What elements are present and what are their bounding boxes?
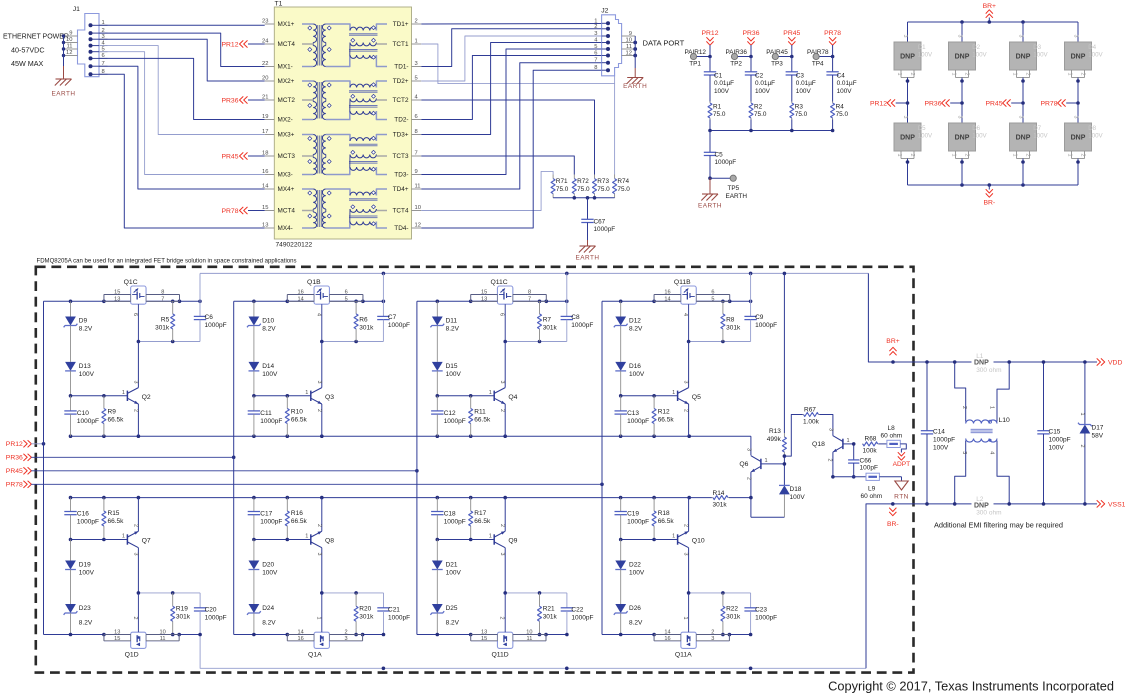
node base row lower cell 4 <box>619 538 656 542</box>
off-page connector PR36 into bridge <box>924 99 963 107</box>
node BR+ rail in bridge box <box>200 272 868 276</box>
resistor R6 301k <box>354 301 374 341</box>
svg-text:100V: 100V <box>446 570 462 577</box>
svg-text:12: 12 <box>415 223 421 229</box>
node gate row lower cell 3 <box>503 591 567 595</box>
svg-text:D8: D8 <box>1088 125 1096 132</box>
svg-text:C14: C14 <box>933 429 945 436</box>
svg-text:1000pF: 1000pF <box>627 418 649 425</box>
wire J1 pin8 to T1 MX4- <box>99 74 265 228</box>
svg-text:D10: D10 <box>262 318 274 325</box>
node pair rail lower cell 2 <box>234 633 386 637</box>
off-page connector BR+ right <box>886 338 899 355</box>
svg-text:R14: R14 <box>713 490 725 497</box>
wire J1 pin4 to T1 MX3+ <box>99 46 265 135</box>
svg-text:75.0: 75.0 <box>754 111 767 118</box>
svg-text:2: 2 <box>909 73 915 76</box>
wire TD2- to J2 pin6 <box>421 56 601 120</box>
resistor R21 301k <box>538 593 558 635</box>
svg-text:R19: R19 <box>176 606 188 613</box>
svg-text:2: 2 <box>1025 73 1031 76</box>
svg-text:60 ohm: 60 ohm <box>861 493 883 500</box>
svg-text:1: 1 <box>672 390 675 396</box>
svg-text:C20: C20 <box>205 607 217 614</box>
J1 left pins 9-12 to earth <box>62 30 78 79</box>
svg-text:4: 4 <box>989 451 995 454</box>
diode D20 100V <box>249 540 279 605</box>
zener diode D23 8.2V <box>64 604 93 635</box>
svg-text:1000pF: 1000pF <box>627 519 649 526</box>
resistor R2 75.0 <box>749 102 767 131</box>
svg-text:66.5k: 66.5k <box>291 417 308 424</box>
svg-text:8.2V: 8.2V <box>629 326 643 333</box>
svg-text:2: 2 <box>964 73 970 76</box>
ground EARTH under J1 <box>51 79 75 98</box>
svg-text:1000pF: 1000pF <box>444 519 466 526</box>
diode D18 100V <box>779 485 805 517</box>
svg-text:2: 2 <box>316 524 322 527</box>
svg-text:PR78: PR78 <box>1040 101 1057 108</box>
node gate row lower cell 1 <box>137 591 201 595</box>
svg-text:1.00k: 1.00k <box>803 419 820 426</box>
svg-text:75.0: 75.0 <box>617 186 630 193</box>
svg-text:Q7: Q7 <box>142 538 151 545</box>
svg-text:7490220122: 7490220122 <box>276 242 313 249</box>
capacitor C7 1000pF <box>377 273 410 341</box>
svg-text:Q1A: Q1A <box>308 652 322 659</box>
svg-text:10: 10 <box>526 629 532 635</box>
svg-text:16: 16 <box>664 636 670 642</box>
diode D14 100V <box>249 362 279 396</box>
svg-text:Additional EMI filtering may b: Additional EMI filtering may be required <box>934 521 1063 530</box>
resistor R7 301k <box>538 301 558 341</box>
svg-text:100V: 100V <box>933 445 949 452</box>
resistor R68 100k <box>862 436 887 455</box>
svg-text:RTN: RTN <box>894 494 909 501</box>
svg-text:R67: R67 <box>804 407 816 414</box>
transformer T1 body <box>274 1 411 249</box>
svg-text:11: 11 <box>527 636 533 642</box>
svg-text:75.0: 75.0 <box>713 111 726 118</box>
resistor R73 75.0 <box>593 175 611 198</box>
svg-text:66.5k: 66.5k <box>658 518 675 525</box>
svg-text:R16: R16 <box>291 510 303 517</box>
resistor R4 75.0 <box>831 102 849 131</box>
svg-text:1: 1 <box>682 617 688 620</box>
transformer T1 winding unit 2 <box>302 81 387 120</box>
svg-text:100V: 100V <box>918 52 933 59</box>
svg-text:DNP: DNP <box>1071 54 1086 61</box>
svg-text:1: 1 <box>305 534 308 540</box>
transformer T1 winding unit 3 <box>302 135 387 175</box>
transistor Q11D dual MOSFET <box>471 593 546 659</box>
svg-text:1000pF: 1000pF <box>260 418 282 425</box>
svg-text:MX2+: MX2+ <box>278 78 295 85</box>
transistor Q6 PNP <box>739 436 784 517</box>
svg-text:1000pF: 1000pF <box>205 615 227 622</box>
svg-text:D4: D4 <box>1088 44 1096 51</box>
svg-text:301k: 301k <box>176 614 191 621</box>
capacitor C17 1000pF <box>248 498 283 540</box>
diode D5 DNP 100V <box>894 103 933 185</box>
wire J1 pin3 to T1 MX2+ <box>99 39 265 81</box>
diode D16 100V <box>615 362 645 396</box>
svg-text:100V: 100V <box>1033 133 1048 140</box>
svg-text:R9: R9 <box>108 409 117 416</box>
svg-text:TD2-: TD2- <box>394 117 408 124</box>
transistor Q1D dual MOSFET <box>104 593 179 659</box>
svg-text:D22: D22 <box>629 562 641 569</box>
svg-text:TD3-: TD3- <box>394 172 408 179</box>
svg-text:13: 13 <box>114 629 120 635</box>
svg-text:6: 6 <box>711 289 714 295</box>
svg-text:4: 4 <box>315 313 321 316</box>
svg-text:TCT3: TCT3 <box>393 153 409 160</box>
svg-text:1: 1 <box>765 458 768 464</box>
off-page connector VSS1 <box>1097 500 1125 508</box>
svg-text:8.2V: 8.2V <box>446 620 460 627</box>
svg-text:2: 2 <box>594 24 597 30</box>
svg-text:D11: D11 <box>446 318 458 325</box>
node common rail above lower FET cells <box>69 496 691 500</box>
svg-text:1000pF: 1000pF <box>1049 437 1071 444</box>
capacitor C19 1000pF <box>615 498 650 540</box>
svg-text:2: 2 <box>499 409 505 412</box>
svg-text:5: 5 <box>711 296 714 302</box>
svg-text:6: 6 <box>415 114 418 120</box>
svg-text:12: 12 <box>626 50 632 56</box>
svg-text:Q11D: Q11D <box>491 652 508 659</box>
svg-text:5: 5 <box>345 296 348 302</box>
svg-text:1000pF: 1000pF <box>260 519 282 526</box>
svg-text:R11: R11 <box>474 409 486 416</box>
svg-text:66.5k: 66.5k <box>108 518 125 525</box>
svg-text:3: 3 <box>746 448 752 451</box>
wire TD3- to J2 pin5 <box>421 49 601 175</box>
svg-text:22: 22 <box>262 61 268 67</box>
capacitor C5 1000pF <box>704 131 736 179</box>
svg-text:C18: C18 <box>444 511 456 518</box>
off-page connector PR45 into bridge <box>985 99 1024 107</box>
svg-text:TCT4: TCT4 <box>393 208 409 215</box>
svg-text:Q2: Q2 <box>142 394 151 401</box>
node base row upper cell 1 <box>69 394 106 398</box>
capacitor C4 0.01uF 100V <box>826 57 856 102</box>
svg-text:D9: D9 <box>79 318 88 325</box>
off-page connector PR12 above TP1 <box>701 30 718 57</box>
svg-text:16: 16 <box>262 169 268 175</box>
resistor R8 301k <box>721 301 741 341</box>
svg-text:R15: R15 <box>108 510 120 517</box>
wire BR- bottom line <box>200 502 1097 670</box>
svg-text:100V: 100V <box>629 371 645 378</box>
diode D1 DNP 100V <box>894 22 933 103</box>
svg-text:Q9: Q9 <box>508 538 517 545</box>
wire J1 pin2 to T1 MX1- <box>99 33 265 66</box>
capacitor C23 1000pF <box>744 593 777 635</box>
svg-text:R7: R7 <box>543 317 552 324</box>
svg-text:15: 15 <box>114 289 120 295</box>
svg-text:1000pF: 1000pF <box>571 322 593 329</box>
capacitor C11 1000pF <box>248 396 283 436</box>
resistor R5 301k <box>155 301 175 341</box>
svg-text:301k: 301k <box>155 325 170 332</box>
capacitor C3 0.01uF 100V <box>786 57 816 102</box>
transistor Q10 NPN <box>654 498 705 593</box>
node gate row upper cell 1 <box>137 340 200 344</box>
test point TP1 PAIR12 <box>684 49 711 68</box>
wire BR+ to right edge <box>868 273 1097 363</box>
svg-text:1: 1 <box>847 438 850 444</box>
svg-text:C10: C10 <box>77 410 89 417</box>
resistor R72 75.0 <box>572 175 590 198</box>
svg-text:D25: D25 <box>446 605 458 612</box>
transistor Q1B dual MOSFET <box>287 279 363 342</box>
svg-text:D23: D23 <box>79 605 91 612</box>
svg-text:16: 16 <box>298 636 304 642</box>
svg-text:2: 2 <box>1025 154 1031 157</box>
svg-text:8.2V: 8.2V <box>262 326 276 333</box>
svg-text:10: 10 <box>160 629 166 635</box>
svg-text:D1: D1 <box>918 44 926 51</box>
resistor R16 66.5k <box>285 498 307 540</box>
svg-text:PR36: PR36 <box>742 30 759 37</box>
wire TP common node to C5 <box>708 129 834 133</box>
off-page connector PR45 bus into bridge box <box>6 467 419 475</box>
svg-text:PR12: PR12 <box>221 41 238 48</box>
text DATA PORT <box>643 39 685 48</box>
svg-text:1: 1 <box>1067 73 1073 76</box>
wire pair vertical column 4 <box>601 301 603 634</box>
svg-text:100V: 100V <box>1088 133 1103 140</box>
svg-text:100V: 100V <box>837 88 853 95</box>
capacitor C21 1000pF <box>377 593 410 635</box>
node base row lower cell 2 <box>252 538 289 542</box>
svg-text:1000pF: 1000pF <box>571 615 593 622</box>
svg-text:MX1-: MX1- <box>278 64 293 71</box>
wire J1 pin7 to T1 MX4+ <box>99 66 265 189</box>
svg-text:2: 2 <box>1080 154 1086 157</box>
resistor R10 66.5k <box>285 396 307 436</box>
svg-text:10: 10 <box>66 37 72 43</box>
svg-text:1: 1 <box>315 617 321 620</box>
svg-text:R18: R18 <box>658 510 670 517</box>
svg-text:8.2V: 8.2V <box>262 620 276 627</box>
svg-text:D5: D5 <box>918 125 926 132</box>
svg-text:MX4-: MX4- <box>278 225 293 232</box>
svg-text:R73: R73 <box>597 178 609 185</box>
svg-text:16: 16 <box>298 289 304 295</box>
capacitor C12 1000pF <box>431 396 466 436</box>
svg-text:R72: R72 <box>577 178 589 185</box>
wire TD1- to J2 pin2 <box>421 29 601 67</box>
svg-text:C3: C3 <box>796 73 805 80</box>
svg-text:C17: C17 <box>260 511 272 518</box>
diode D8 DNP 100V <box>1065 103 1104 185</box>
svg-text:1: 1 <box>122 390 125 396</box>
svg-text:100V: 100V <box>79 570 95 577</box>
svg-text:TCT1: TCT1 <box>393 41 409 48</box>
svg-text:3: 3 <box>711 636 714 642</box>
svg-text:Q18: Q18 <box>812 441 825 448</box>
svg-text:7: 7 <box>528 296 531 302</box>
capacitor C16 1000pF <box>64 498 99 540</box>
node base row lower cell 1 <box>69 538 106 542</box>
svg-text:TD1-: TD1- <box>394 64 408 71</box>
node pair rail upper cell 3 <box>417 300 569 304</box>
resistor R67 1.00k <box>784 407 833 457</box>
svg-text:60 ohm: 60 ohm <box>881 433 903 440</box>
svg-text:1: 1 <box>672 534 675 540</box>
transistor Q11C dual MOSFET <box>471 279 547 342</box>
off-page connector VDD <box>1097 358 1123 366</box>
off-page connector RTN <box>894 477 909 501</box>
svg-text:8: 8 <box>594 65 597 71</box>
svg-text:PR36: PR36 <box>221 97 238 104</box>
svg-text:13: 13 <box>481 629 487 635</box>
svg-text:4: 4 <box>682 313 688 316</box>
svg-text:C23: C23 <box>755 607 767 614</box>
transformer T1 winding unit 1 <box>302 24 387 67</box>
svg-text:8.2V: 8.2V <box>629 620 643 627</box>
svg-text:3: 3 <box>1073 116 1079 119</box>
svg-text:8.2V: 8.2V <box>79 326 93 333</box>
svg-text:2: 2 <box>499 524 505 527</box>
wire TCT1 to R74 node <box>421 44 614 84</box>
node base row upper cell 4 <box>619 394 656 398</box>
node pair rail lower cell 4 <box>602 633 752 637</box>
svg-text:11: 11 <box>160 636 166 642</box>
svg-text:10: 10 <box>415 205 421 211</box>
test point TP3 PAIR45 <box>766 49 793 68</box>
svg-text:1: 1 <box>489 534 492 540</box>
svg-text:15: 15 <box>114 636 120 642</box>
note FDMQ8205A text <box>37 259 297 265</box>
svg-text:C66: C66 <box>860 458 872 465</box>
wire TCT2 to R73 <box>421 100 594 175</box>
svg-text:2: 2 <box>683 524 689 527</box>
svg-text:16: 16 <box>664 289 670 295</box>
svg-text:1000pF: 1000pF <box>715 159 737 166</box>
svg-text:6: 6 <box>594 51 597 57</box>
svg-text:FDMQ8205A can be used for an i: FDMQ8205A can be used for an integrated … <box>37 259 297 265</box>
svg-text:0.01µF: 0.01µF <box>837 80 857 87</box>
svg-text:R2: R2 <box>754 104 763 111</box>
svg-text:EARTH: EARTH <box>623 83 647 90</box>
svg-text:8.2V: 8.2V <box>79 620 93 627</box>
diode D15 100V <box>432 362 462 396</box>
node base row lower cell 3 <box>436 538 473 542</box>
svg-text:7: 7 <box>594 58 597 64</box>
capacitor C8 1000pF <box>561 273 594 341</box>
svg-text:301k: 301k <box>543 325 558 332</box>
ferrite bead L8 60 ohm <box>881 425 903 448</box>
diode D21 100V <box>432 540 462 605</box>
svg-text:PR12: PR12 <box>6 441 23 448</box>
svg-text:PR78: PR78 <box>6 482 23 489</box>
svg-text:D21: D21 <box>446 562 458 569</box>
svg-text:66.5k: 66.5k <box>474 518 491 525</box>
svg-text:12: 12 <box>66 50 72 56</box>
svg-text:VDD: VDD <box>1108 360 1122 367</box>
svg-text:3: 3 <box>499 381 505 384</box>
off-page connector PR78 at T1 <box>221 207 264 215</box>
svg-text:R68: R68 <box>865 436 877 443</box>
wire J1 pin1 to T1 MX1+ <box>99 24 265 26</box>
svg-text:3: 3 <box>957 35 963 38</box>
svg-text:7: 7 <box>415 151 418 157</box>
wire pair vertical column 1 <box>43 301 45 634</box>
svg-text:301k: 301k <box>726 614 741 621</box>
svg-text:L9: L9 <box>868 486 876 493</box>
svg-text:D20: D20 <box>262 562 274 569</box>
svg-text:D24: D24 <box>262 605 274 612</box>
svg-text:Q4: Q4 <box>508 394 517 401</box>
wire Q18 emitter node <box>831 475 866 479</box>
svg-text:11: 11 <box>626 44 632 50</box>
svg-text:R8: R8 <box>726 317 735 324</box>
svg-text:C21: C21 <box>388 607 400 614</box>
svg-text:D13: D13 <box>79 363 91 370</box>
svg-text:R12: R12 <box>658 409 670 416</box>
svg-text:D2: D2 <box>972 44 980 51</box>
capacitor C18 1000pF <box>431 498 466 540</box>
svg-text:PR78: PR78 <box>221 208 238 215</box>
svg-text:1: 1 <box>1012 154 1018 157</box>
svg-text:2: 2 <box>132 524 138 527</box>
svg-text:DNP: DNP <box>974 502 989 509</box>
svg-text:66.5k: 66.5k <box>658 417 675 424</box>
node pair rail upper cell 1 <box>44 300 202 304</box>
diode D7 DNP 100V <box>1010 103 1049 185</box>
svg-text:Q8: Q8 <box>325 538 334 545</box>
svg-text:2: 2 <box>909 154 915 157</box>
resistor R1 75.0 <box>708 102 726 131</box>
svg-text:13: 13 <box>481 296 487 302</box>
svg-text:R74: R74 <box>617 178 629 185</box>
wire TD2+ to J2 pin3 <box>421 36 601 81</box>
svg-text:5: 5 <box>594 44 597 50</box>
ground EARTH under J2 <box>623 78 647 91</box>
svg-text:DNP: DNP <box>955 54 970 61</box>
svg-text:D19: D19 <box>79 562 91 569</box>
svg-text:3: 3 <box>316 381 322 384</box>
capacitor C15 1000pF 100V <box>1037 360 1070 506</box>
svg-text:DATA PORT: DATA PORT <box>643 39 685 48</box>
node BR- bottom rail of DNP bridge <box>908 183 1079 206</box>
svg-text:R10: R10 <box>291 409 303 416</box>
svg-text:14: 14 <box>298 296 304 302</box>
test point TP2 PAIR36 <box>725 49 752 68</box>
resistor R22 301k <box>721 593 741 635</box>
svg-text:Q11A: Q11A <box>675 652 692 659</box>
svg-text:0.01µF: 0.01µF <box>714 80 734 87</box>
svg-text:C5: C5 <box>715 152 724 159</box>
svg-text:R5: R5 <box>161 317 170 324</box>
diode D6 DNP 100V <box>949 103 988 185</box>
zener diode D24 8.2V <box>247 604 276 635</box>
svg-text:9: 9 <box>629 31 632 37</box>
svg-text:3: 3 <box>828 428 834 431</box>
svg-text:1000pF: 1000pF <box>388 615 410 622</box>
svg-text:ETHERNET POWER: ETHERNET POWER <box>3 34 69 41</box>
node gate row upper cell 3 <box>503 340 566 344</box>
capacitor C13 1000pF <box>615 396 650 436</box>
svg-text:1: 1 <box>1012 73 1018 76</box>
svg-text:VSS1: VSS1 <box>1108 501 1125 508</box>
svg-text:C16: C16 <box>77 511 89 518</box>
svg-text:EARTH: EARTH <box>575 255 599 262</box>
